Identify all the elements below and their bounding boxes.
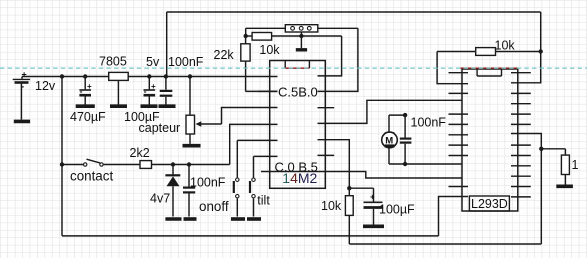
wire: 10k run to PIC right row1 bbox=[318, 36, 342, 76]
connector programming jack bbox=[246, 25, 358, 32]
svg-text:22k: 22k bbox=[214, 48, 235, 62]
svg-text:14M2: 14M2 bbox=[282, 170, 317, 186]
svg-text:+: + bbox=[87, 82, 92, 91]
svg-text:+: + bbox=[151, 82, 156, 91]
svg-text:470µF: 470µF bbox=[70, 110, 106, 124]
svg-text:1: 1 bbox=[572, 158, 579, 172]
battery 12v bbox=[13, 70, 30, 122]
svg-text:100nF: 100nF bbox=[190, 176, 226, 190]
svg-text:10k: 10k bbox=[321, 199, 342, 213]
svg-text:-: - bbox=[80, 87, 83, 97]
resistor 2k2 bbox=[140, 161, 230, 169]
capacitor 470uF bbox=[76, 77, 95, 107]
wire: bottom rail B bbox=[349, 243, 541, 245]
potentiometer capteur bbox=[183, 77, 222, 146]
resistor 22k bbox=[241, 36, 278, 91]
resistor 10k (serial) bbox=[246, 28, 342, 40]
chip 14M2 bbox=[258, 61, 334, 189]
ground connector middle pin bbox=[296, 32, 307, 50]
svg-text:12v: 12v bbox=[35, 79, 56, 93]
capacitor 100nF (motor) bbox=[400, 115, 412, 164]
wire: 2k2 to PIC pin 4 bbox=[230, 124, 278, 164]
wire: bottom rail A bbox=[62, 235, 439, 237]
svg-text:10k: 10k bbox=[259, 43, 280, 57]
wire: PIC row7 name-box line to L293D bbox=[261, 172, 462, 179]
regulator 7805 bbox=[109, 72, 129, 106]
svg-text:onoff: onoff bbox=[199, 199, 229, 214]
svg-text:7805: 7805 bbox=[99, 55, 127, 69]
svg-text:tilt: tilt bbox=[257, 194, 270, 208]
wire: connector right to PIC pin 14M2 serial-in bbox=[318, 28, 358, 91]
svg-text:10k: 10k bbox=[495, 39, 516, 53]
switch tilt bbox=[247, 156, 278, 219]
wire: PIC right row4 jog to L293D pin bbox=[318, 100, 463, 123]
red accent line 14M2 notch bbox=[285, 67, 309, 69]
switch onoff bbox=[231, 140, 278, 219]
svg-text:+: + bbox=[22, 70, 27, 80]
wire: bottom rail A riser to L293D pin 8 bbox=[439, 197, 469, 236]
wire: top horizontal bus bbox=[167, 11, 541, 13]
svg-text:C.5B.0: C.5B.0 bbox=[278, 85, 318, 100]
switch contact bbox=[62, 159, 140, 166]
svg-text:-: - bbox=[21, 82, 24, 93]
construction dashed cyan line bbox=[0, 67, 587, 69]
resistor 10k (pulldown) bbox=[345, 196, 353, 244]
resistor 10k (top right) bbox=[437, 48, 541, 84]
wire: pot wiper to PIC pin 3 bbox=[222, 108, 278, 125]
wire: PIC right row5 riser down bbox=[318, 140, 350, 196]
capacitor 100uF (rail) bbox=[141, 77, 158, 107]
resistor 1 (right) bbox=[541, 149, 573, 187]
svg-text:4v7: 4v7 bbox=[150, 191, 170, 205]
capacitor 100uF (bottom) bbox=[349, 188, 384, 226]
svg-text:100nF: 100nF bbox=[168, 55, 204, 69]
red accent line L293D top bbox=[460, 67, 518, 69]
wire: top bus right riser to L293D bbox=[511, 12, 541, 83]
svg-text:+: + bbox=[370, 193, 375, 202]
svg-text:100nF: 100nF bbox=[411, 116, 447, 130]
wire: contact riser (rail to bottom rail) bbox=[61, 77, 63, 236]
svg-text:2k2: 2k2 bbox=[130, 146, 150, 160]
diode zener 4v7 bbox=[165, 165, 181, 220]
svg-text:-: - bbox=[144, 87, 147, 97]
svg-text:contact: contact bbox=[70, 169, 113, 184]
svg-text:100µF: 100µF bbox=[379, 203, 415, 217]
motor M bbox=[382, 115, 462, 164]
wire: 5v rail bbox=[22, 76, 278, 78]
chip L293D bbox=[449, 69, 531, 211]
wire: left riser from top bus to 5v rail bbox=[166, 12, 168, 77]
svg-text:5v: 5v bbox=[146, 55, 160, 69]
svg-text:L293D: L293D bbox=[471, 197, 508, 211]
capacitor 100nF (reset) bbox=[183, 165, 197, 220]
wire: L293D right row to resistor 1 and bottom rail B bbox=[511, 134, 541, 149]
capacitor 100nF (rail) bbox=[159, 77, 176, 107]
svg-text:capteur: capteur bbox=[139, 121, 181, 135]
